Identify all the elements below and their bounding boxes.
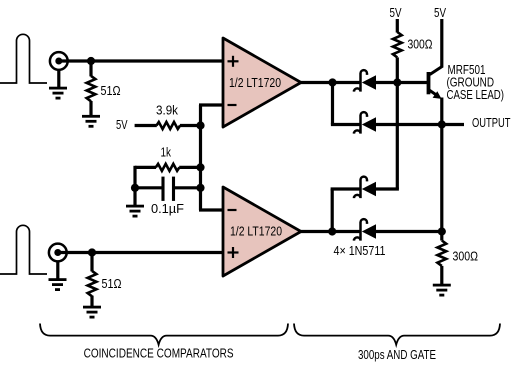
wire bus to comp2 inverting input [199,208,223,211]
svg-text:300ps AND GATE: 300ps AND GATE [358,348,436,362]
ground (R6) [433,284,451,297]
wire input2 to comparator + [58,251,223,254]
wire row3 [331,187,360,190]
svg-text:300Ω: 300Ω [408,38,433,52]
wire BNC1 ground lead [57,70,60,88]
svg-text:1/2 LT1720: 1/2 LT1720 [230,224,282,238]
wire input1 to comparator + [59,59,223,62]
svg-text:COINCIDENCE COMPARATORS: COINCIDENCE COMPARATORS [84,346,234,360]
brace coincidence comparators [40,324,288,345]
node comp2 output branch [328,227,336,235]
svg-text:0.1µF: 0.1µF [151,202,184,216]
wire branch down to row2 [331,83,334,125]
svg-text:5V: 5V [434,6,447,20]
wire bus to comp1 inverting input [199,103,223,106]
resistor R5 300ohm [393,32,402,57]
node cap/left branch [131,184,139,192]
svg-text:5V: 5V [116,118,128,132]
wire left branch vertical [133,166,136,205]
transistor Q1 MRF501 [397,66,442,99]
pulse input symbol top [0,34,47,83]
BNC connector J1 [50,52,68,70]
wire BNC2 ground lead [56,261,59,279]
node 1k/bus [196,163,204,171]
node 3.9k/bus [196,121,204,129]
svg-text:51Ω: 51Ω [101,84,121,98]
wire row2 [331,123,360,126]
brace 300ps and gate [294,324,500,345]
capacitor C1 0.1uF [135,186,162,189]
op-amp U1b 1/2 LT1720 bottom comparator [223,187,301,276]
resistor R2 51ohm [88,271,97,296]
svg-text:4× 1N5711: 4× 1N5711 [334,244,386,258]
svg-text:300Ω: 300Ω [453,250,479,264]
wire junction to R2 [90,253,93,272]
resistor R4 1k [135,166,156,169]
svg-text:CASE LEAD): CASE LEAD) [447,88,505,102]
wire 5V to 3.9k [135,124,157,127]
node input2 junction [88,248,96,256]
node emitter/diode4 [438,227,446,235]
node cap/bus [196,184,204,192]
diode D1 1N5711 [354,70,397,91]
ground (R2) [83,306,101,319]
resistor R6 300ohm [437,241,446,266]
node diode1/base [393,78,401,86]
wire branch up to row3 [331,189,334,232]
node comp1 output branch [328,78,336,86]
wire 3.9k to bus [180,124,201,127]
wire 5V to collector [440,19,443,68]
diode D4 1N5711 [354,219,442,240]
wire comp2 output row [300,230,360,233]
resistor R1 51ohm [87,76,96,101]
BNC connector J2 [49,244,67,262]
wire 5V to 300ohm [396,19,399,33]
ground (1k/cap) [126,205,144,218]
svg-text:1/2 LT1720: 1/2 LT1720 [229,76,281,90]
svg-text:51Ω: 51Ω [102,277,122,291]
wire junction to R1 [89,61,92,76]
svg-text:OUTPUT: OUTPUT [472,116,511,130]
svg-text:5V: 5V [390,6,403,20]
ground (R1) [82,115,100,128]
pulse input symbol bottom [0,225,47,274]
wire emitter/output vertical [440,98,443,241]
ground (BNC2) [49,278,67,291]
svg-text:3.9k: 3.9k [156,104,179,118]
diode D3 1N5711 [354,177,399,198]
svg-text:1k: 1k [161,146,172,160]
ground (BNC1) [49,87,67,100]
diode D2 1N5711 [354,112,442,133]
wire comp1 output row [300,81,360,84]
resistor R3 3.9k [157,122,181,129]
wire output stub [442,123,464,126]
wire reference bus vertical [199,105,202,210]
wire diode bus vertical x397 [396,83,399,190]
node input1 junction [87,57,95,65]
op-amp U1a 1/2 LT1720 top comparator [223,38,301,127]
node output [438,120,446,128]
